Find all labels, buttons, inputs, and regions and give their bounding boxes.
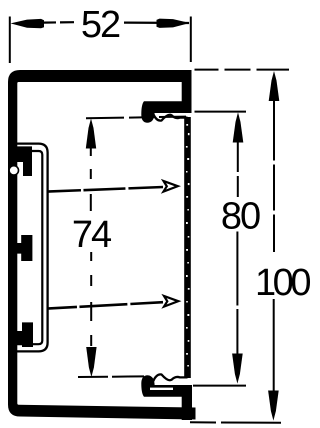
white slit inside bottom hook bar bbox=[150, 388, 173, 390]
dimension 52: left arrow bbox=[11, 19, 45, 28]
mounting clip 2 (middle) bbox=[17, 235, 33, 261]
svg-text:80: 80 bbox=[221, 196, 260, 238]
svg-text:52: 52 bbox=[81, 4, 120, 46]
dimension 74: bottom extension line bbox=[78, 375, 144, 378]
dimension 100: up arrow bbox=[269, 71, 280, 101]
trunking body: top-right side wall stub bbox=[182, 70, 192, 113]
bottom hook rolled-edge wavy line bbox=[153, 374, 188, 381]
dimension 100: dimension line (broken for text) bbox=[273, 101, 275, 253]
trunking body: bottom cover-retaining hook bbox=[141, 375, 192, 397]
mounting clip 1 (top) bbox=[17, 146, 32, 176]
svg-text:74: 74 bbox=[72, 214, 112, 256]
mounting clip 3 (bottom) bbox=[17, 322, 33, 347]
svg-text:100: 100 bbox=[255, 262, 310, 304]
leader arrow B open head bbox=[164, 296, 178, 307]
dimension 80: top extension line bbox=[195, 111, 247, 113]
dimension 52: left extension line bbox=[9, 17, 11, 64]
dimension 80: down arrow bbox=[232, 354, 243, 384]
trunking body: outer U shell (top wall, left wall, bottom wall) bbox=[8, 70, 196, 420]
trunking body: bottom-right side wall stub bbox=[182, 385, 192, 420]
dimension 100: bottom extension line bbox=[190, 421, 281, 424]
dimension 80: dimension line (broken for text) bbox=[237, 142, 239, 197]
dimension 74: top extension line bbox=[86, 117, 186, 119]
dimension 100: top extension line bbox=[195, 69, 290, 71]
top hook rolled-edge wavy line bbox=[153, 114, 188, 121]
dimension 52: dimension line right segment bbox=[124, 22, 189, 25]
screw hole in back wall bbox=[9, 166, 18, 175]
dimension 80: up arrow bbox=[233, 112, 244, 142]
cover front line (thin speckled vertical wall) bbox=[184, 117, 191, 378]
dimension 74: dimension line (dashed, broken for text) bbox=[90, 148, 92, 218]
trunking body: top cover-retaining hook bbox=[141, 101, 191, 123]
leader arrow B shaft (lower) bbox=[47, 302, 163, 308]
dimension 80: bottom extension line bbox=[193, 385, 246, 387]
internal partition channel: outer contour bbox=[17, 144, 48, 352]
leader arrow A open head bbox=[164, 181, 178, 192]
dimension 52: dimension line left segment bbox=[43, 21, 74, 24]
dimension 74: up arrow bbox=[86, 119, 96, 149]
dimension 100: down arrow bbox=[268, 391, 279, 421]
leader arrow A shaft (upper) bbox=[47, 187, 163, 192]
internal partition channel: inner contour bbox=[17, 151, 42, 344]
dimension 52: right extension line bbox=[190, 17, 192, 63]
dimension 74: down arrow bbox=[86, 347, 96, 377]
dimension 52: right arrow bbox=[157, 19, 190, 28]
